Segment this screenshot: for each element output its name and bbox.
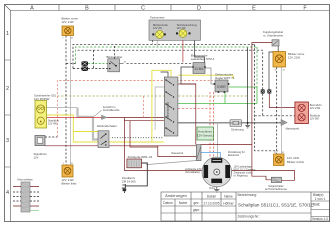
ignition control unit <box>196 145 201 161</box>
svg-text:Höhner: Höhner <box>223 202 234 206</box>
wire: ELBA to EWR link <box>204 68 216 84</box>
frame corner diagonal <box>5 5 11 11</box>
svg-text:12V 5W: 12V 5W <box>310 118 320 121</box>
svg-text:E: E <box>252 6 256 12</box>
svg-text:Blinkschalter: Blinkschalter <box>107 55 123 59</box>
wire: gray drop into magneto <box>217 123 219 158</box>
grid column ticks top band <box>59 5 281 11</box>
svg-text:12V 2W: 12V 2W <box>177 27 187 30</box>
wire: fuse circuit black y=122.9 <box>178 122 281 124</box>
wire: EWR red dashed drops to magneto <box>210 92 214 157</box>
svg-text:Abblendschalter: Abblendschalter <box>97 124 117 128</box>
ignition coil <box>127 159 142 168</box>
wire: control unit dark red to brake light <box>201 144 252 146</box>
dimmer switch box <box>98 131 109 148</box>
junction triangle at headlight circuit <box>102 115 107 119</box>
grid row ticks left band <box>5 60 11 167</box>
wire: ignition to EWR yellow <box>178 75 233 79</box>
connector plug pair right <box>261 89 272 93</box>
wire: terminal strip stubs row3 dashed <box>13 196 39 198</box>
svg-text:gez.: gez. <box>193 201 199 205</box>
wire: connector to turn switch row2 <box>88 68 108 70</box>
wire: dimmer dotted output <box>112 137 164 139</box>
svg-text:Klemmleiste: Klemmleiste <box>18 178 34 182</box>
wire: leader line high beam note <box>94 110 101 116</box>
horn box <box>35 136 45 146</box>
svg-text:12V, 21W: 12V, 21W <box>62 20 74 24</box>
wire: dark red long drop x=124.4 to brake circuit <box>124 118 294 181</box>
wire: olive dashed bus y=96 <box>57 95 247 97</box>
svg-text:Schaltplan S51/1C1, S51/1E, S7: Schaltplan S51/1C1, S51/1E, S70/1E <box>238 203 314 208</box>
blinker front left lamp box <box>62 26 74 36</box>
wire: front left blinker dashed down x=66 to rear left blinker <box>65 36 67 166</box>
wire: riser connecting h3 to connector row2 <box>93 50 95 68</box>
svg-text:A: A <box>30 6 34 12</box>
ground point triangle <box>281 119 287 125</box>
wire: green dashed riser right <box>256 47 258 87</box>
wire: switch top black elbow <box>161 72 169 77</box>
svg-text:Zeichnungs-Nr.:: Zeichnungs-Nr.: <box>238 215 261 219</box>
svg-text:Bezeichnung:: Bezeichnung: <box>238 193 257 197</box>
wire: dark red from junction to ignition switch <box>107 118 164 121</box>
brake light switch rear <box>271 177 281 182</box>
svg-text:ELBA: ELBA <box>195 67 204 71</box>
junction dot fuse/ground <box>247 122 249 124</box>
svg-text:Massepunkt: Massepunkt <box>286 128 300 131</box>
wire: clutch lever black right <box>269 46 278 89</box>
svg-text:Steuerteil: Steuerteil <box>171 151 183 155</box>
wire: terminal strip stubs row1 dark red <box>13 186 39 188</box>
svg-text:12V, 21W: 12V, 21W <box>288 56 300 60</box>
wire: tacho illumination red lead <box>182 37 184 62</box>
svg-text:12V: 12V <box>34 155 39 159</box>
ELBA pin nubs <box>192 66 194 68</box>
wire: dark red brake light feed from connector <box>269 94 295 108</box>
wire: tacho blinker indicator dashed lead <box>152 40 154 44</box>
wire: stub connector row2 left <box>73 68 82 70</box>
wire: terminal strip stubs row5 dark red <box>13 205 39 207</box>
svg-text:Elektronik: Elektronik <box>228 154 240 157</box>
svg-text:Änderungen: Änderungen <box>165 193 187 198</box>
wire: horn dashed signal <box>45 136 57 138</box>
svg-text:C: C <box>141 6 145 12</box>
svg-text:3: 3 <box>6 138 9 144</box>
wire: headlight gray lead <box>46 107 78 109</box>
wire: front left blinker ground gray x=70.5 <box>70 36 72 166</box>
wire: stub connector row1 left <box>66 63 76 65</box>
wire: turn switch top dashed riser <box>114 44 116 59</box>
EWR voltage regulator box <box>215 80 228 92</box>
wire: control unit blue lead <box>201 152 221 157</box>
wire: turn switch output dashed row <box>127 62 192 64</box>
svg-text:Ladeanlage MTZ-4: Ladeanlage MTZ-4 <box>191 57 215 61</box>
wire: right dashed drop to rear blinker <box>255 44 278 151</box>
wire: rear right blinker gray ground <box>281 126 283 154</box>
wire: black dashed bus h3 y=51.5 <box>78 50 263 89</box>
wire: gray to control unit <box>146 161 196 165</box>
ground symbol at fuse junction <box>245 123 250 128</box>
svg-text:4: 4 <box>6 190 9 196</box>
svg-text:Blatt:: Blatt: <box>313 203 320 207</box>
wire: terminal strip stub row6 green <box>30 210 39 212</box>
svg-text:Zündspule 8351.1/4: Zündspule 8351.1/4 <box>128 155 153 159</box>
svg-text:1: 1 <box>6 31 9 37</box>
clutch lever switch box <box>272 40 279 46</box>
svg-text:Version 1.0: Version 1.0 <box>312 217 328 221</box>
ELBA electronic charger box <box>193 63 205 74</box>
svg-text:Name: Name <box>224 195 233 199</box>
wire: clutch lever dark red left <box>252 43 272 180</box>
svg-text:12V 35/35W: 12V 35/35W <box>34 97 50 101</box>
svg-text:Kontrollleuchte: Kontrollleuchte <box>103 109 120 112</box>
fuse <box>230 120 242 127</box>
wire: turn switch output row y=62.2 <box>120 63 124 65</box>
wire: red dashed bus y=81.5 <box>57 81 213 138</box>
wire: terminal strip stubs row2 dashed <box>13 191 39 193</box>
svg-text:an Hinterradbremse: an Hinterradbremse <box>265 188 288 191</box>
wire: headlight red main beam <box>46 117 102 119</box>
svg-text:(Grundplatte): (Grundplatte) <box>185 171 200 174</box>
wire: kill switch black riser x=247.6 <box>247 48 249 123</box>
svg-text:Blinker links: Blinker links <box>62 181 78 185</box>
wire: red dashed stub right of switch <box>178 108 214 110</box>
svg-text:m. Unterbrecher: m. Unterbrecher <box>263 33 283 37</box>
blinker front right lamp box <box>273 52 286 68</box>
wire: EWR green right loop <box>178 87 257 104</box>
svg-text:2: 2 <box>6 86 9 92</box>
flywheel magneto <box>202 157 232 187</box>
svg-text:Datum: Datum <box>207 195 217 199</box>
EWR pin nubs <box>214 83 216 85</box>
wire: headlight yellow low beam <box>46 115 98 132</box>
svg-text:Blinker rechts: Blinker rechts <box>287 160 305 164</box>
wire: tacho ground gray lead <box>156 40 158 47</box>
headlight box <box>35 101 47 129</box>
ignition light switch box <box>164 77 178 136</box>
connector plug pair left <box>82 61 89 71</box>
blinker rear right lamp box <box>274 154 285 166</box>
title block texts <box>163 193 328 221</box>
wire: connector to turn switch row1 <box>88 63 108 65</box>
wire: yellow taillight feed <box>151 70 153 142</box>
wire: tacho charge lead black <box>191 33 205 62</box>
wire: front right blinker dashed down <box>276 67 279 154</box>
wire: terminal strip stubs row4 dashed <box>13 200 39 202</box>
wire: dark red branch x=130 <box>130 121 158 147</box>
wire: dark red jog to control unit <box>158 146 197 157</box>
spark plug <box>122 184 126 193</box>
svg-text:17.10.2005: 17.10.2005 <box>204 202 220 206</box>
svg-text:EWR: EWR <box>217 85 226 89</box>
wire: ignition switch gray to outlet box <box>178 84 196 145</box>
wire: gray loop left of switch <box>155 87 164 130</box>
wire: gray bundle to dimmer switch <box>78 108 99 140</box>
svg-text:el. Regelung: el. Regelung <box>234 175 249 178</box>
svg-text:ZM 14-260: ZM 14-260 <box>122 179 136 183</box>
wire: coil to spark plug black <box>125 163 147 186</box>
wire: ignition to EWR yellow y=75.2 <box>152 70 171 77</box>
wire: dashed tail light feed <box>255 94 295 116</box>
svg-text:Regler EWT 71: Regler EWT 71 <box>215 76 235 80</box>
wire: red dashed branch x=143.6 <box>143 96 145 118</box>
svg-text:gepr.: gepr. <box>193 208 200 212</box>
svg-text:12V 4W: 12V 4W <box>48 123 58 126</box>
svg-text:B: B <box>85 6 89 12</box>
svg-text:Tachometer: Tachometer <box>150 16 165 20</box>
svg-text:Sicherung: Sicherung <box>231 128 244 132</box>
wire: green dashed bus h2 y=47.5 <box>76 47 258 64</box>
blinker rear left lamp box <box>62 165 73 177</box>
wire: front right blinker gray ground <box>280 67 282 119</box>
svg-text:12V-Steckd.: 12V-Steckd. <box>197 134 213 138</box>
12V outlet green box <box>197 127 213 140</box>
tail and brake light box <box>295 102 309 124</box>
svg-text:12V 21W: 12V 21W <box>310 107 321 110</box>
svg-text:Name: Name <box>179 201 188 205</box>
wire: black dashed bus h1 blinker feed y=44.3 <box>73 44 255 68</box>
svg-text:1 von 1: 1 von 1 <box>315 197 326 201</box>
title block outline <box>161 192 330 221</box>
turn signal switch box <box>108 59 120 72</box>
wire: horn supply dark red y=145.8 <box>45 145 196 147</box>
ground symbol below magneto <box>214 187 219 192</box>
wire: yellow drop to y142 <box>73 132 164 143</box>
svg-text:Datum: Datum <box>163 201 173 205</box>
svg-text:D: D <box>197 6 201 12</box>
terminal strip <box>21 182 30 212</box>
tachometer housing <box>149 20 201 40</box>
wire: ELBA left hook black <box>181 67 196 84</box>
svg-text:12V 2W: 12V 2W <box>153 27 163 30</box>
svg-text:Zündlichtschalter: Zündlichtschalter <box>166 102 169 120</box>
